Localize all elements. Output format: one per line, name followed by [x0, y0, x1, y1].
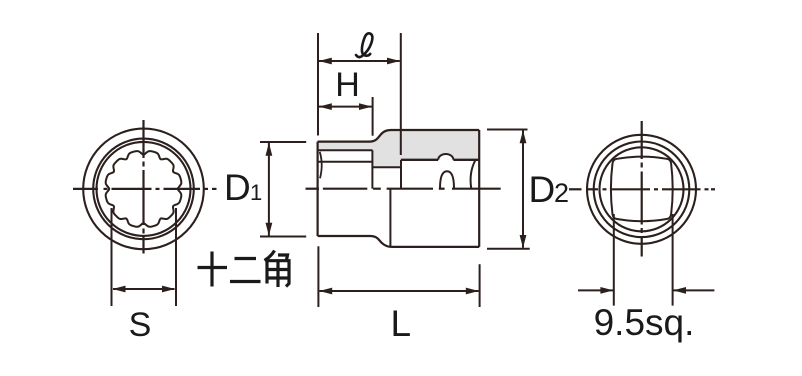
ball hole notch (white) in top wall: [438, 154, 453, 160]
svg-text:D: D: [529, 169, 556, 210]
body outline: bottom (external view): [318, 236, 480, 247]
square hole left wall: [400, 160, 402, 189]
right view: square drive hole: [611, 157, 673, 222]
svg-text:2: 2: [554, 178, 569, 208]
left view: horizontal centerline: [73, 188, 217, 190]
middle view: horizontal centerline: [306, 188, 501, 190]
right view: outer circle: [587, 135, 696, 244]
body outline: top (section): [318, 130, 480, 142]
dimension D1: dimension line: [268, 143, 270, 236]
left view: front rim chamfer circle: [93, 139, 194, 240]
left view: 12-point socket profile: [106, 151, 182, 227]
shoulder face line (external, below axis): [389, 189, 391, 247]
dimension D2: extension lines: [487, 129, 528, 131]
svg-text:1: 1: [250, 180, 262, 205]
dimension L: extension lines: [317, 246, 319, 307]
bore entry chamfer arc: [320, 152, 322, 179]
right view: chamfer circle: [600, 147, 684, 231]
dimension 9.5sq: extension lines: [613, 214, 615, 306]
svg-text:S: S: [129, 306, 152, 344]
dimension D1: extension lines: [260, 141, 306, 143]
square hole top wall line: [401, 159, 438, 161]
left view: head face circle: [97, 142, 191, 236]
svg-text:L: L: [391, 303, 412, 344]
drive-hole entry chamfer arc: [471, 160, 476, 188]
body outline: face (left edge): [317, 142, 319, 236]
svg-text:D: D: [224, 167, 251, 208]
dimension l: script ell label: [356, 33, 372, 57]
bore step wall: [371, 150, 373, 189]
dimension H: right extension line: [372, 97, 374, 136]
12pt bore top line: [318, 149, 373, 151]
far-wall pin hole (seen through cavity): [440, 171, 454, 188]
left view: outer circle (body OD): [83, 129, 204, 250]
dimension l: dimension line: [319, 60, 400, 62]
body outline: back face (right edge): [478, 130, 480, 247]
dimension S: extension lines: [111, 208, 113, 306]
through-hole wall line: [372, 166, 401, 168]
dimension S: dimension line: [113, 288, 175, 290]
right view: vertical centerline: [641, 121, 643, 257]
dimension l: extension lines: [317, 33, 319, 136]
left view: vertical centerline: [142, 120, 144, 254]
right view: horizontal centerline: [569, 188, 715, 190]
svg-text:9.5sq.: 9.5sq.: [594, 302, 695, 343]
dimension 9.5sq: dimension line (outside arrows): [578, 289, 613, 291]
right view: rim circle: [594, 142, 690, 238]
section fill (cut material, gray): [318, 130, 480, 167]
dimension D2: dimension line: [522, 131, 524, 248]
dimension H: dimension line: [319, 106, 372, 108]
12pt bore serration line: [318, 161, 373, 163]
label: juuni-kaku (12-point): [198, 251, 290, 288]
svg-text:H: H: [335, 66, 360, 104]
dimension L: dimension line: [319, 290, 478, 292]
